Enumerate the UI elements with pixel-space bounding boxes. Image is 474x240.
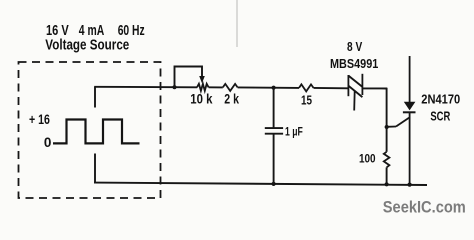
svg-text:15: 15: [301, 93, 312, 108]
voltage source enclosure (dashed box): [19, 62, 161, 198]
wire: corner drop to gate node: [386, 88, 388, 127]
label "8 V": [347, 39, 362, 54]
wire: 2 k to 15 ohm, through capacitor node: [238, 86, 299, 89]
value label "15": [301, 93, 312, 108]
svg-text:SeekIC.com: SeekIC.com: [383, 199, 466, 217]
wire: SBS right terminal to corner: [362, 87, 387, 89]
svg-text:+ 16: + 16: [29, 112, 50, 127]
svg-text:0: 0: [44, 135, 52, 150]
value label "100": [359, 151, 376, 165]
wire: gate lead diagonal to SCR cathode: [396, 118, 409, 127]
svg-text:8 V: 8 V: [347, 39, 362, 54]
wire: 10 k to 2 k: [209, 86, 223, 88]
svg-text:Voltage Source: Voltage Source: [45, 37, 129, 53]
svg-text:2 k: 2 k: [224, 91, 239, 107]
label "MBS4991": [330, 56, 378, 71]
label: "0" (waveform low level): [44, 135, 52, 150]
label: "+ 16" (waveform high level): [29, 112, 50, 127]
node: junction dot at gate node: [385, 125, 389, 129]
wire: source return lead (lower segment, x=95): [94, 154, 96, 183]
svg-text:2N4170: 2N4170: [421, 93, 460, 107]
svg-text:100: 100: [359, 151, 376, 165]
node: junction dot 100 ohm / bottom rail: [385, 182, 389, 186]
svg-text:10 k: 10 k: [190, 91, 212, 107]
wire: gate node down to 100 ohm: [386, 127, 388, 152]
node: junction dot capacitor bottom: [272, 182, 276, 186]
wire: under potentiometer wiper loop: [175, 86, 198, 88]
wire: bottom return rail: [94, 183, 427, 185]
wire: 100 ohm to bottom rail: [386, 167, 388, 184]
potentiometer R1 10 k (rheostat loop with wiper arrow): [175, 67, 209, 91]
label "SCR": [430, 109, 450, 124]
value label "1 uF": [285, 127, 303, 139]
wire: source positive lead (upper segment, x=95): [94, 87, 96, 108]
square-wave source waveform: [53, 120, 140, 144]
label: "Voltage Source": [45, 37, 129, 53]
node: junction dot SCR cathode / bottom rail: [408, 183, 412, 187]
capacitor C1 1 uF: [265, 88, 283, 184]
wire: main top rail, source corner to potentiometer: [94, 86, 174, 88]
SBS U1 MBS4991 (silicon bilateral switch symbol): [348, 74, 362, 111]
label: source ratings text "16 V 4 mA 60 Hz": [46, 23, 145, 39]
node: junction dot at potentiometer left terminal: [172, 85, 176, 89]
resistor R4 100 (vertical): [384, 152, 390, 168]
node: junction dot at capacitor top: [272, 86, 276, 90]
svg-text:1 μF: 1 μF: [285, 127, 303, 139]
wire: 15 ohm to SBS left terminal: [314, 87, 349, 89]
watermark "SeekIC.com": [383, 199, 466, 217]
wire: gate lead horizontal: [387, 126, 396, 128]
resistor R3 15: [299, 84, 314, 91]
svg-text:SCR: SCR: [430, 109, 450, 124]
label "2N4170": [421, 93, 460, 107]
value label "2 k": [224, 91, 239, 107]
SCR Q1 2N4170: [403, 56, 416, 185]
scan artifact: faint vertical fold line: [236, 0, 238, 47]
resistor R2 2 k: [223, 84, 238, 91]
svg-text:MBS4991: MBS4991: [330, 56, 378, 71]
value label "10 k": [190, 91, 212, 107]
